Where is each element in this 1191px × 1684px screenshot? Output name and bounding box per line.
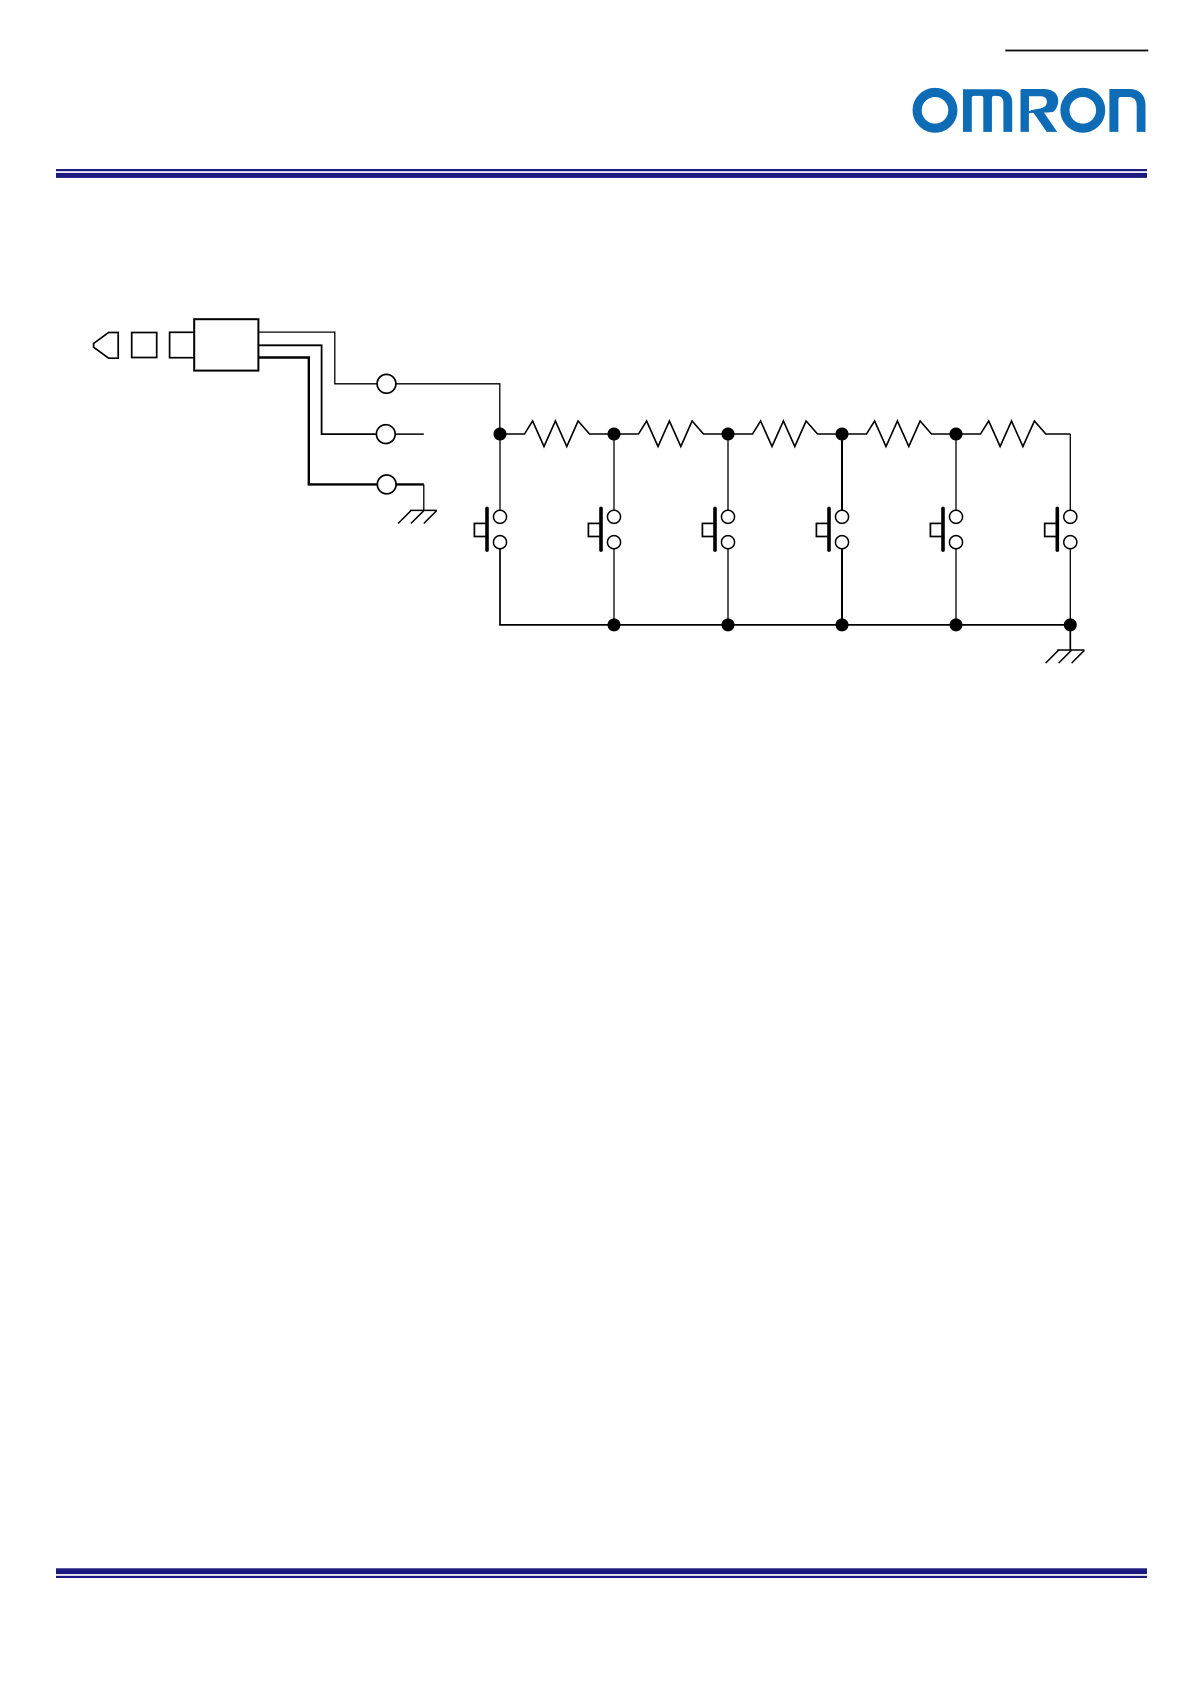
switch SW4 contact top (835, 510, 848, 523)
switch SW1 contact top (493, 510, 506, 523)
switch SW4 actuator bar (827, 508, 831, 550)
terminal T2 (376, 425, 395, 444)
wire: SW6 to bus (1069, 549, 1071, 625)
switch SW5 contact bottom (949, 536, 962, 549)
resistor R3 (728, 421, 842, 447)
switch SW4 stem (816, 523, 828, 536)
switch SW5 actuator bar (941, 508, 945, 550)
plug body (194, 319, 258, 370)
switch SW2 stem (588, 523, 600, 536)
wire: SW4 to bus (841, 549, 843, 625)
OMRON logo (917, 89, 1145, 132)
switch SW6 contact bottom (1064, 536, 1077, 549)
resistor ladder and switch network (474, 421, 1084, 663)
wire: T1 to node A (396, 384, 500, 428)
node rail junction 2 (608, 428, 621, 441)
wire: tip lead to terminal 1 (258, 332, 377, 384)
switch SW1 contact bottom (493, 536, 506, 549)
wire: down to ground 1 (423, 484, 425, 510)
switch SW2 contact top (607, 510, 620, 523)
switch SW6 stem (1045, 523, 1057, 536)
plug ring square (132, 333, 157, 358)
logo letter M (963, 89, 1012, 132)
switch SW1 stem (474, 523, 486, 536)
logo letter R stem (1021, 89, 1029, 132)
resistor R1 (500, 421, 614, 447)
node rail junction 3 (722, 428, 735, 441)
logo letter N (1109, 89, 1145, 132)
logo letter O1 (917, 92, 953, 128)
wire: ring lead to terminal 2 (258, 345, 376, 434)
ground 2 (1046, 650, 1085, 663)
wire: SW3 to bus (727, 549, 729, 625)
switch SW3 stem (702, 523, 714, 536)
ground 1 (398, 510, 437, 523)
node rail junction 4 (836, 428, 849, 441)
node bus junction 3 (836, 618, 849, 631)
switch SW3 contact bottom (721, 536, 734, 549)
footer double rule: thick top line (56, 1568, 1147, 1574)
switch SW6 contact top (1064, 510, 1077, 523)
switch SW1 actuator bar (485, 508, 489, 550)
node rail junction 1 (494, 428, 507, 441)
switch SW2 actuator bar (599, 508, 603, 550)
plug tip (94, 333, 119, 359)
wire: rail to SW3 (727, 434, 729, 510)
wire: rail to SW6 (1069, 434, 1071, 510)
node rail junction 5 (950, 428, 963, 441)
wire: SW5 to bus (955, 549, 957, 625)
logo letter O2 (1065, 92, 1101, 128)
terminal T1 (377, 374, 396, 393)
logo letter R leg (1032, 111, 1057, 132)
plug neck (170, 332, 197, 357)
node bus junction 1 (608, 618, 621, 631)
resistor R4 (842, 421, 956, 447)
header short rule (top right) (1005, 50, 1148, 52)
header double rule: thin top line (56, 169, 1147, 171)
wire: rail to SW2 (613, 434, 615, 510)
wire: sleeve lead to terminal 3 (258, 358, 377, 485)
terminal T3 (377, 475, 396, 494)
node bus junction 5 (1064, 618, 1077, 631)
footer double rule: thin bottom line (56, 1576, 1147, 1578)
node bus junction 4 (950, 618, 963, 631)
switch SW6 actuator bar (1056, 508, 1060, 550)
bottom bus wire (500, 549, 1070, 625)
switch SW2 contact bottom (607, 536, 620, 549)
logo letter R bowl (1026, 89, 1059, 114)
wire: T2 stub (395, 433, 424, 435)
resistor R2 (614, 421, 728, 447)
switch SW3 contact top (721, 510, 734, 523)
wire: rail to SW1 (499, 434, 501, 510)
wire: SW2 to bus (613, 549, 615, 625)
wire: bus to ground 2 (1069, 625, 1071, 650)
header double rule: thick bottom line (56, 173, 1147, 178)
resistor R5 (956, 421, 1070, 447)
node bus junction 2 (722, 618, 735, 631)
switch SW5 contact top (949, 510, 962, 523)
switch SW5 stem (930, 523, 942, 536)
wire: rail to SW4 (841, 434, 843, 510)
wire: T3 to ground (396, 483, 424, 485)
switch SW3 actuator bar (713, 508, 717, 550)
wire: rail to SW5 (955, 434, 957, 510)
switch SW4 contact bottom (835, 536, 848, 549)
